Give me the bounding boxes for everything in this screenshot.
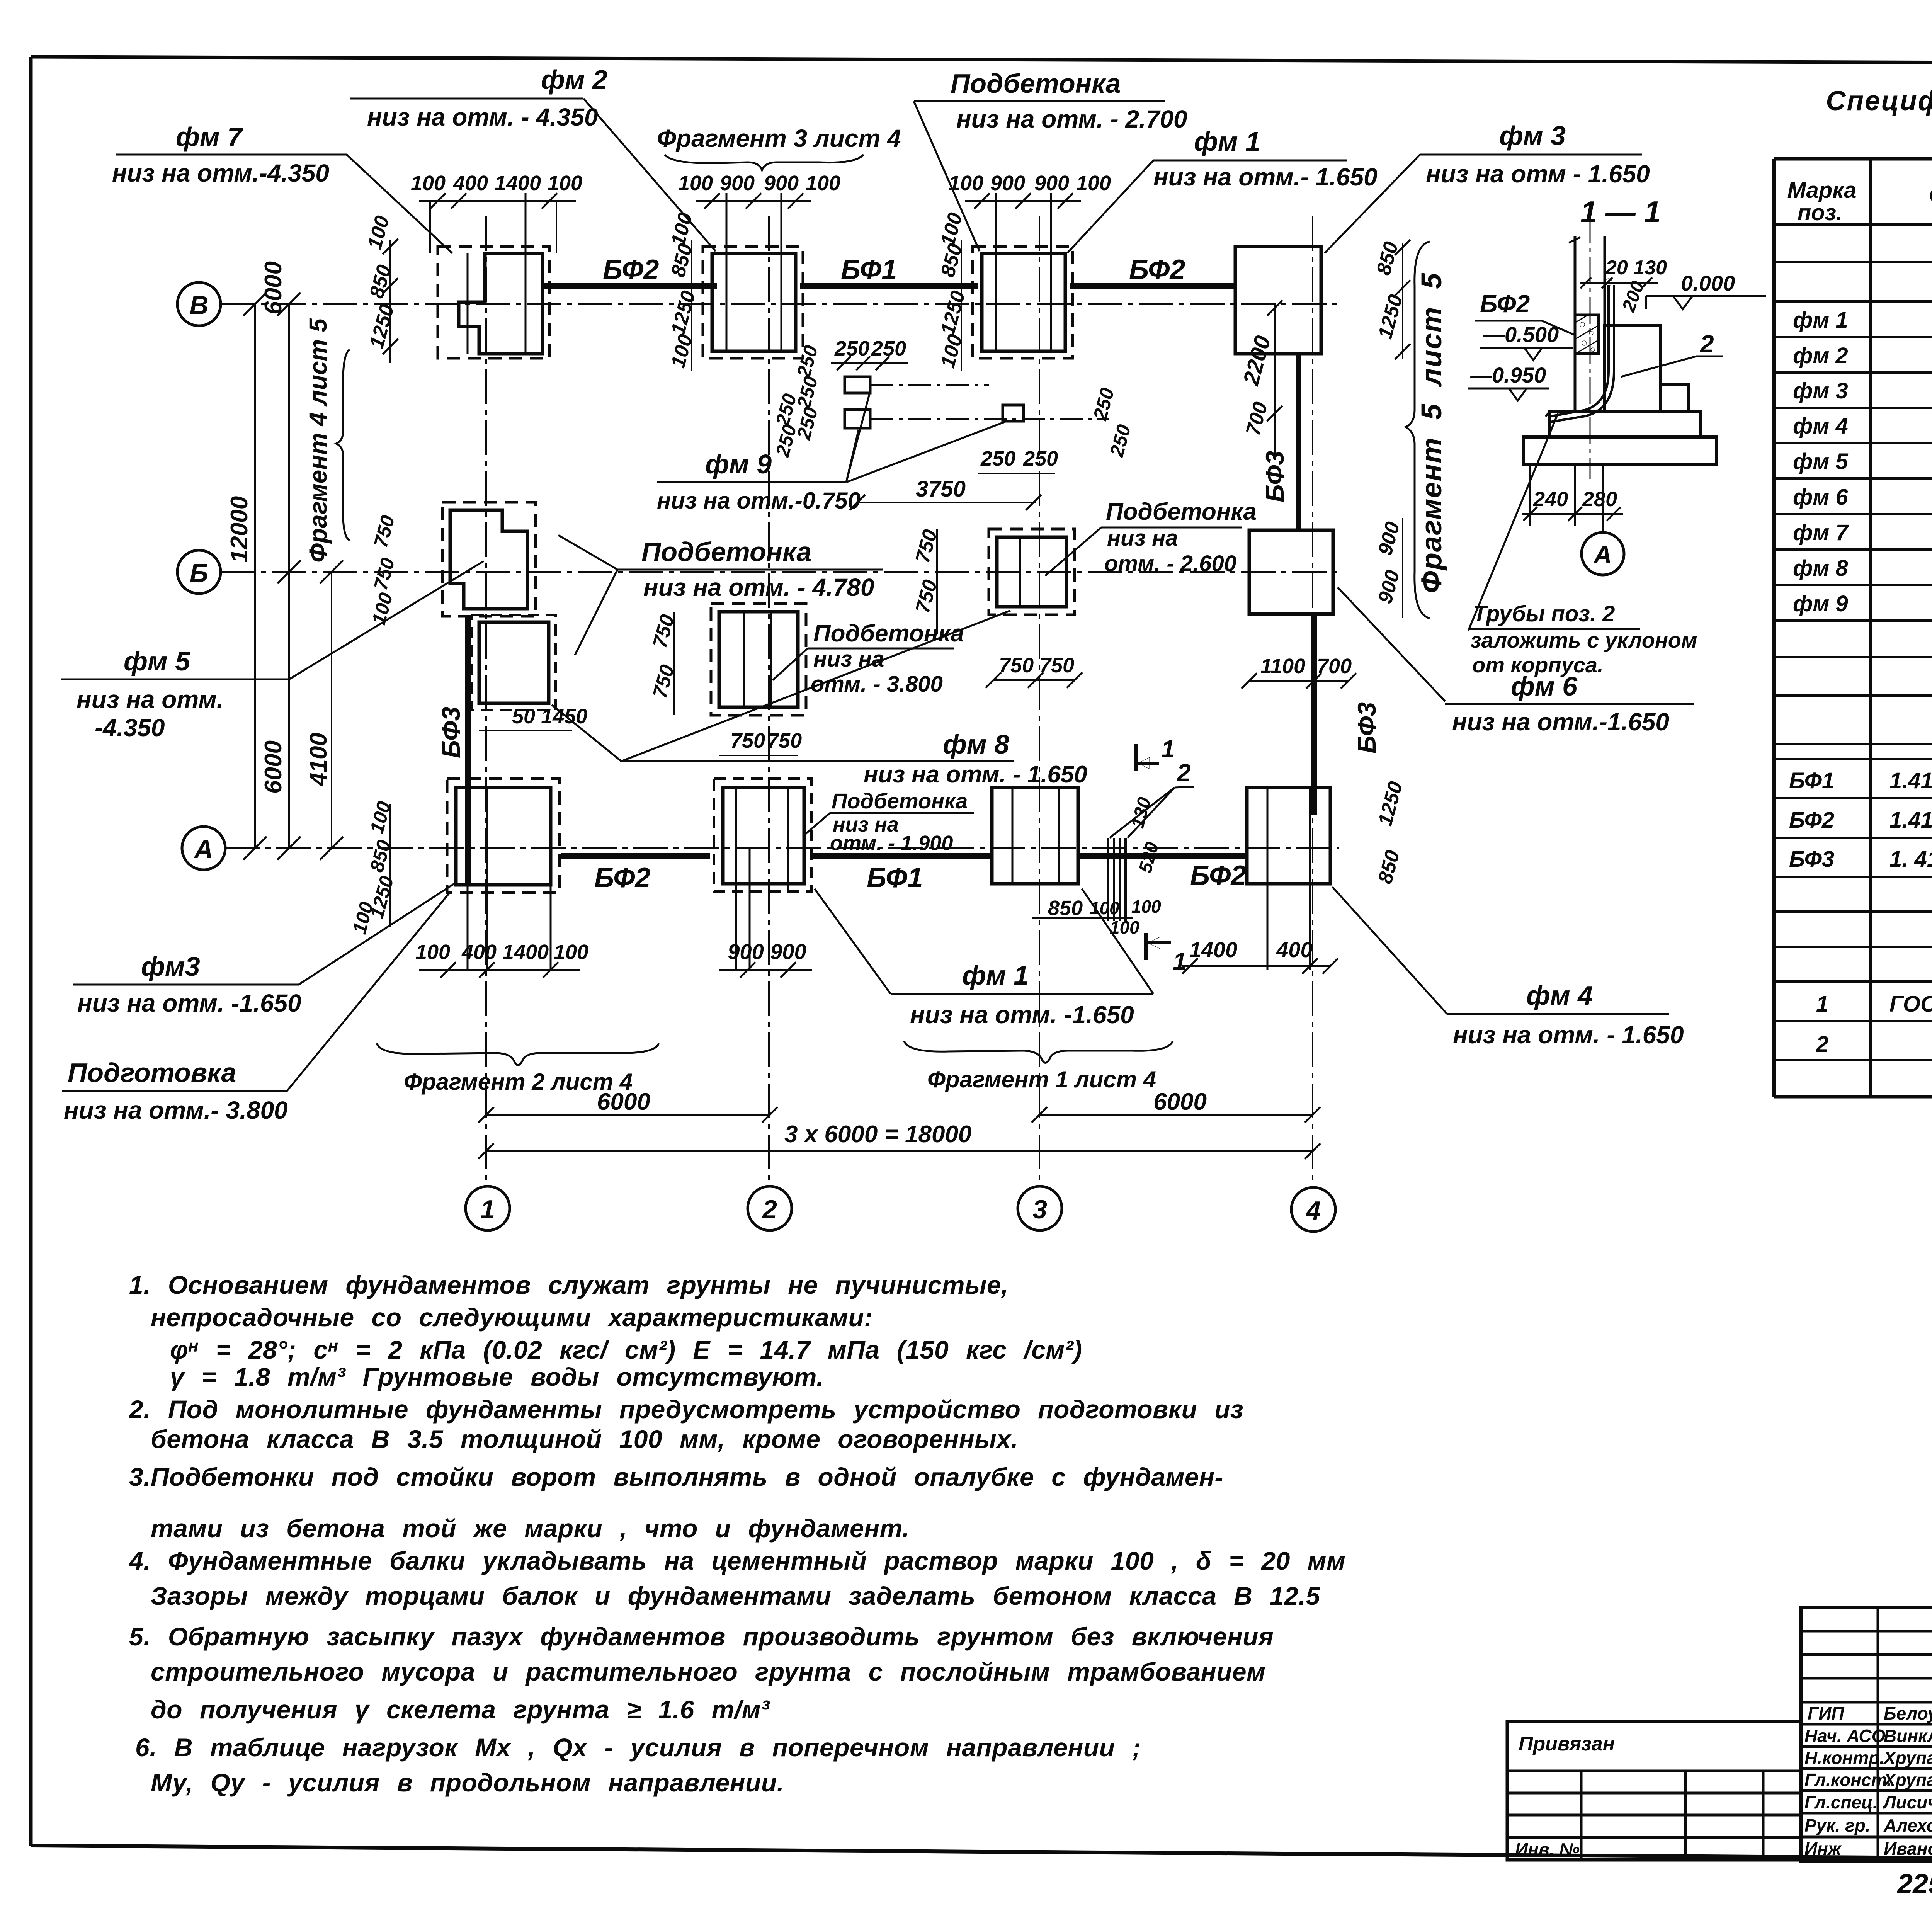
label fm8 bbox=[552, 611, 1087, 788]
svg-text:-4.350: -4.350 bbox=[95, 714, 165, 742]
bottom dim 6000 left bbox=[478, 1089, 777, 1123]
svg-text:6000: 6000 bbox=[260, 261, 287, 315]
section mark 1 upper bbox=[1136, 735, 1175, 771]
svg-text:750: 750 bbox=[999, 654, 1034, 677]
svg-text:Подбетонка: Подбетонка bbox=[1106, 498, 1257, 525]
svg-text:фм 2: фм 2 bbox=[541, 65, 607, 95]
label podbetonka -4.780 bbox=[558, 535, 883, 655]
svg-text:низ на: низ на bbox=[813, 646, 884, 672]
fragment 5 list 5 rotated bbox=[1406, 242, 1447, 618]
svg-text:750: 750 bbox=[1039, 654, 1074, 677]
signature rows bbox=[1804, 1703, 1932, 1859]
svg-text:фм 7: фм 7 bbox=[176, 122, 243, 152]
svg-text:фм 5: фм 5 bbox=[124, 646, 190, 676]
label BF2 with leader bbox=[1475, 290, 1576, 335]
svg-text:фм 5: фм 5 bbox=[1793, 449, 1848, 474]
label podbetonka -1.900 at A2 bbox=[806, 789, 974, 855]
svg-text:850: 850 bbox=[1372, 239, 1403, 277]
dim 20 130 bbox=[1580, 257, 1667, 288]
svg-text:6000: 6000 bbox=[260, 740, 287, 794]
foundation fm3 at A-1 bbox=[447, 779, 560, 970]
svg-text:фм3: фм3 bbox=[141, 951, 200, 981]
svg-text:низ на отм.-1.650: низ на отм.-1.650 bbox=[1452, 708, 1669, 736]
svg-text:1. 415-1: 1. 415-1 bbox=[1889, 847, 1932, 872]
fragment 2 brace and text bbox=[377, 1043, 659, 1095]
svg-text:фм 3: фм 3 bbox=[1499, 121, 1566, 151]
svg-text:Обозначение: Обозначение bbox=[1929, 182, 1932, 208]
svg-text:фм 2: фм 2 bbox=[1793, 343, 1848, 368]
svg-text:Хрупало: Хрупало bbox=[1883, 1748, 1932, 1768]
svg-text:Подготовка: Подготовка bbox=[68, 1058, 236, 1088]
svg-text:низ на отм. -1.650: низ на отм. -1.650 bbox=[910, 1001, 1134, 1029]
svg-text:отм. - 2.600: отм. - 2.600 bbox=[1104, 551, 1236, 576]
svg-text:750: 750 bbox=[767, 729, 802, 752]
svg-text:250: 250 bbox=[1023, 447, 1058, 470]
svg-text:900: 900 bbox=[728, 939, 764, 964]
svg-text:850: 850 bbox=[1048, 896, 1083, 920]
svg-text:Инж: Инж bbox=[1804, 1839, 1842, 1859]
svg-text:БФ1: БФ1 bbox=[1789, 768, 1834, 793]
svg-text:низ на отм. - 2.700: низ на отм. - 2.700 bbox=[956, 105, 1187, 133]
svg-text:поз.: поз. bbox=[1798, 200, 1843, 225]
svg-text:Подбетонка: Подбетонка bbox=[641, 537, 811, 567]
svg-text:Зазоры между торцами балок: Зазоры между торцами балок и фундаментам… bbox=[151, 1582, 1320, 1610]
svg-text:250: 250 bbox=[771, 422, 801, 459]
svg-text:Фрагмент 3 лист 4: Фрагмент 3 лист 4 bbox=[657, 124, 901, 152]
svg-text:2: 2 bbox=[762, 1195, 777, 1224]
svg-text:520: 520 bbox=[1135, 840, 1163, 875]
svg-text:Фрагмент 2 лист 4: Фрагмент 2 лист 4 bbox=[404, 1069, 633, 1095]
svg-text:1400: 1400 bbox=[502, 941, 549, 964]
svg-text:900: 900 bbox=[1034, 172, 1069, 195]
svg-text:100: 100 bbox=[806, 172, 840, 195]
svg-text:БФ2: БФ2 bbox=[1190, 860, 1246, 891]
dim chain above B-2: 100 900 900 100 bbox=[678, 172, 840, 209]
dim 4100 bbox=[305, 560, 343, 860]
privyazan box bbox=[1507, 1721, 1801, 1860]
level -0.500 bbox=[1480, 322, 1573, 360]
dim chain above B-3: 100 900 900 100 bbox=[949, 172, 1111, 209]
svg-text:6. В таблице нагрузок Мх: 6. В таблице нагрузок Мх , Qх - усилия в… bbox=[135, 1733, 1141, 1762]
svg-text:БФ2: БФ2 bbox=[594, 862, 650, 893]
svg-text:5. Обратную засыпку пазух: 5. Обратную засыпку пазух фундаментов пр… bbox=[129, 1622, 1274, 1651]
label fm4 bottom right bbox=[1332, 887, 1684, 1049]
svg-text:Иванов: Иванов bbox=[1884, 1839, 1932, 1859]
svg-text:γ = 1.8 т/м³ Грунтовые вод: γ = 1.8 т/м³ Грунтовые воды отсутствуют. bbox=[170, 1362, 824, 1391]
dims 250 250 near fm8 bbox=[978, 386, 1135, 473]
spec header texts bbox=[1787, 177, 1932, 225]
label fm1 top bbox=[1067, 126, 1378, 253]
svg-text:2: 2 bbox=[1700, 330, 1714, 358]
svg-text:100: 100 bbox=[937, 210, 967, 248]
svg-text:200: 200 bbox=[1618, 278, 1648, 315]
dims 750 750 below Б-2 bbox=[719, 729, 802, 755]
axis B (letter В) bbox=[177, 282, 1339, 326]
svg-text:В: В bbox=[189, 291, 208, 320]
svg-text:100: 100 bbox=[937, 332, 967, 370]
svg-text:1: 1 bbox=[1173, 947, 1187, 975]
svg-text:6000: 6000 bbox=[1153, 1089, 1207, 1115]
svg-text:12000: 12000 bbox=[226, 496, 253, 563]
beam BF2 row A left bbox=[561, 856, 710, 893]
svg-text:БФ2: БФ2 bbox=[603, 254, 659, 285]
svg-text:250: 250 bbox=[1105, 422, 1135, 459]
note pipes poz2 bbox=[1468, 413, 1697, 677]
label fm2 bbox=[350, 65, 716, 251]
bottom dim 6000 right bbox=[1032, 1089, 1320, 1123]
svg-text:700: 700 bbox=[1242, 400, 1272, 438]
svg-text:Подбетонка: Подбетонка bbox=[813, 620, 964, 647]
label podbetonka -2.600 bbox=[1045, 498, 1257, 576]
dim chain below A-1: 100 400 1400 100 bbox=[415, 941, 588, 978]
svg-text:1: 1 bbox=[1816, 992, 1828, 1017]
bolt dims 850 100 100 near A-3 bbox=[1032, 795, 1163, 937]
label fm7 bbox=[112, 122, 452, 253]
foundation fm2 at B-2 bbox=[703, 193, 803, 358]
svg-text:БФ3: БФ3 bbox=[437, 707, 465, 758]
svg-text:850: 850 bbox=[1374, 848, 1404, 886]
svg-text:отм. - 1.900: отм. - 1.900 bbox=[830, 832, 953, 855]
column walls bbox=[1569, 236, 1605, 356]
svg-text:4100: 4100 bbox=[305, 733, 332, 787]
svg-text:100: 100 bbox=[364, 213, 394, 252]
label fm3 top right bbox=[1325, 121, 1650, 253]
dims 1100 700 below Б-4 bbox=[1242, 655, 1356, 689]
svg-text:100: 100 bbox=[411, 172, 446, 195]
svg-text:низ на отм.- 3.800: низ на отм.- 3.800 bbox=[64, 1096, 288, 1124]
dim chain below A-4: 1400 400 bbox=[1182, 937, 1338, 974]
label fm5 bbox=[61, 561, 484, 742]
svg-text:900: 900 bbox=[1374, 568, 1404, 606]
dim 240 280 bbox=[1522, 465, 1623, 526]
svg-text:Алехова: Алехова bbox=[1883, 1815, 1932, 1835]
svg-text:1. Основанием фундаментов: 1. Основанием фундаментов служат грунты … bbox=[129, 1271, 1009, 1299]
rotated dims 850 1250 right of B-4 bbox=[1372, 239, 1410, 359]
svg-text:100: 100 bbox=[678, 172, 713, 195]
svg-text:отм. - 3.800: отм. - 3.800 bbox=[811, 672, 943, 697]
svg-text:Подбетонка: Подбетонка bbox=[951, 68, 1121, 99]
svg-text:низ на отм. - 4.780: низ на отм. - 4.780 bbox=[643, 573, 874, 601]
dim 2200 vertical right of B-3 bbox=[1238, 300, 1282, 460]
svg-text:2. Под монолитные фундамент: 2. Под монолитные фундаменты предусмотре… bbox=[128, 1395, 1243, 1424]
svg-text:4. Фундаментные балки укла: 4. Фундаментные балки укладывать на цеме… bbox=[128, 1546, 1345, 1575]
svg-text:Б: Б bbox=[190, 558, 208, 588]
svg-text:250: 250 bbox=[980, 447, 1015, 470]
level mark 0.000 bbox=[1618, 271, 1766, 315]
svg-text:1.415-1: 1.415-1 bbox=[1889, 768, 1932, 793]
svg-text:Лисичкин: Лисичкин bbox=[1883, 1792, 1932, 1812]
svg-text:Му, Qу - усилия в продоль: Му, Qу - усилия в продольном направлении… bbox=[151, 1768, 784, 1797]
spec table grid bbox=[1774, 159, 1932, 1097]
svg-text:100: 100 bbox=[554, 941, 588, 964]
left dim chain 6000/6000 bbox=[260, 261, 301, 860]
dim chain above B-1: 100 400 1400 100 bbox=[411, 172, 582, 253]
svg-text:900: 900 bbox=[720, 172, 755, 195]
svg-text:400: 400 bbox=[461, 941, 497, 964]
foundation podbetonka at Б-2 bbox=[711, 604, 806, 715]
svg-text:строительного мусора и рас: строительного мусора и растительного гру… bbox=[151, 1657, 1265, 1686]
svg-text:непросадочные со следующи: непросадочные со следующими характеристи… bbox=[151, 1303, 873, 1332]
svg-text:низ на отм.-0.750: низ на отм.-0.750 bbox=[657, 488, 861, 514]
svg-text:1: 1 bbox=[1161, 735, 1175, 763]
svg-text:900: 900 bbox=[1374, 519, 1404, 558]
svg-text:100: 100 bbox=[548, 172, 582, 195]
svg-text:700: 700 bbox=[1317, 655, 1352, 678]
dashed podbetonka around A2 bbox=[714, 779, 811, 891]
label fm9 bbox=[657, 394, 1005, 514]
svg-text:1250: 1250 bbox=[667, 288, 700, 337]
label podbetonka -3.800 bbox=[773, 620, 964, 697]
svg-text:1.415-1: 1.415-1 bbox=[1889, 808, 1932, 833]
label podgotovka bbox=[62, 893, 449, 1124]
svg-text:фм 7: фм 7 bbox=[1793, 520, 1849, 545]
svg-text:БФ3: БФ3 bbox=[1352, 702, 1381, 754]
column axis 2 bbox=[748, 216, 792, 1230]
svg-text:100: 100 bbox=[368, 590, 397, 627]
svg-text:Белоус: Белоус bbox=[1884, 1703, 1932, 1723]
svg-text:22529- 03: 22529- 03 bbox=[1896, 1869, 1932, 1900]
svg-text:БФ2: БФ2 bbox=[1480, 290, 1530, 318]
anchor bolts cluster near A-3 bbox=[1108, 838, 1126, 921]
rotated dim 1250 right of A-4 bbox=[1374, 779, 1407, 886]
svg-text:БФ2: БФ2 bbox=[1789, 808, 1834, 833]
svg-text:фм 8: фм 8 bbox=[1793, 556, 1848, 581]
svg-text:Инв. №: Инв. № bbox=[1515, 1839, 1580, 1859]
svg-text:фм 1: фм 1 bbox=[962, 960, 1029, 990]
svg-text:100: 100 bbox=[415, 941, 450, 964]
svg-text:до получения γ скелета гр: до получения γ скелета грунта ≥ 1.6 т/м³ bbox=[151, 1695, 770, 1724]
svg-text:750: 750 bbox=[370, 556, 399, 592]
svg-text:фм 1: фм 1 bbox=[1194, 126, 1260, 156]
svg-text:Хрупало: Хрупало bbox=[1883, 1770, 1932, 1790]
dim chain below A-2: 900 900 bbox=[719, 939, 812, 978]
svg-text:низ на отм. - 1.650: низ на отм. - 1.650 bbox=[864, 761, 1087, 788]
svg-text:фм 3: фм 3 bbox=[1793, 378, 1848, 403]
svg-text:100: 100 bbox=[1110, 917, 1139, 937]
foundation fm1 at B-3 bbox=[973, 193, 1073, 358]
svg-text:низ на: низ на bbox=[1107, 526, 1178, 551]
svg-text:фм 6: фм 6 bbox=[1793, 485, 1848, 510]
section mark 1 lower bbox=[1146, 933, 1187, 975]
svg-text:100: 100 bbox=[349, 900, 378, 936]
svg-text:900: 900 bbox=[770, 939, 806, 964]
svg-text:Фрагмент 4 лист 5: Фрагмент 4 лист 5 bbox=[304, 318, 332, 563]
svg-text:3: 3 bbox=[1032, 1195, 1047, 1224]
small fm8 square mid bbox=[1003, 405, 1024, 421]
svg-text:тами из бетона той же мар: тами из бетона той же марки , что и фунд… bbox=[151, 1514, 910, 1543]
dims 750 750 left of Б-3 bbox=[912, 527, 942, 634]
rotated dims left of B-1: 100 850 1250 bbox=[364, 213, 399, 363]
beam BF2 row B right bbox=[1070, 254, 1235, 286]
label fm3 bottom left bbox=[73, 882, 457, 1017]
pipe poz 2 bbox=[1549, 279, 1614, 422]
svg-text:1400: 1400 bbox=[495, 172, 541, 195]
svg-text:280: 280 bbox=[1582, 488, 1617, 511]
foundation fm4 at A-4 bbox=[1247, 788, 1330, 970]
svg-text:Трубы поз. 2: Трубы поз. 2 bbox=[1473, 601, 1615, 626]
svg-text:250: 250 bbox=[834, 337, 869, 360]
svg-text:А: А bbox=[1593, 540, 1612, 569]
label fragment 3 bbox=[657, 124, 901, 170]
svg-text:низ на отм. - 1.650: низ на отм. - 1.650 bbox=[1453, 1021, 1684, 1049]
svg-text:250: 250 bbox=[1089, 386, 1118, 423]
svg-text:Гл.спец.: Гл.спец. bbox=[1804, 1792, 1878, 1812]
svg-text:3750: 3750 bbox=[916, 476, 966, 502]
svg-text:100: 100 bbox=[667, 210, 697, 248]
svg-text:400: 400 bbox=[1276, 937, 1312, 962]
svg-text:Подбетонка: Подбетонка bbox=[832, 789, 968, 813]
svg-text:Нач. АСО: Нач. АСО bbox=[1804, 1726, 1886, 1746]
svg-text:заложить с уклоном: заложить с уклоном bbox=[1470, 628, 1697, 652]
BF2 beam section hatched bbox=[1575, 315, 1599, 354]
svg-text:фм 8: фм 8 bbox=[943, 729, 1009, 759]
svg-text:240: 240 bbox=[1533, 488, 1568, 511]
foundation fm1 at A-2 bbox=[723, 788, 804, 970]
beam BF3 vertical Б4-А4 bbox=[1314, 614, 1381, 815]
svg-text:100: 100 bbox=[667, 332, 697, 370]
pos 2 leader bbox=[1621, 330, 1723, 377]
foundation fm5 at Б-1 bbox=[442, 502, 556, 710]
dim 50 1450 bbox=[479, 705, 587, 730]
pos label 2 with leader bbox=[1110, 759, 1194, 838]
svg-text:4: 4 bbox=[1305, 1196, 1321, 1225]
dim 3750 bbox=[850, 476, 1041, 510]
axis circle A below detail bbox=[1582, 465, 1624, 575]
foundation fm1 at A-3 bbox=[992, 788, 1078, 884]
svg-text:Н.контр.: Н.контр. bbox=[1804, 1748, 1884, 1768]
svg-text:20 130: 20 130 bbox=[1605, 257, 1667, 279]
beam BF1 row B bbox=[800, 254, 978, 286]
svg-text:850: 850 bbox=[366, 262, 396, 301]
foundation steps section bbox=[1524, 326, 1716, 465]
svg-text:400: 400 bbox=[453, 172, 488, 195]
axis Б bbox=[177, 550, 1339, 594]
fragment 4 list 5 rotated label bbox=[304, 318, 350, 563]
svg-text:Спецификация к схеме располо: Спецификация к схеме расположения фундам… bbox=[1826, 86, 1932, 116]
svg-text:1 — 1: 1 — 1 bbox=[1580, 195, 1661, 229]
svg-text:низ на отм - 1.650: низ на отм - 1.650 bbox=[1426, 160, 1650, 188]
svg-text:2: 2 bbox=[1816, 1032, 1828, 1057]
svg-text:низ на отм.-4.350: низ на отм.-4.350 bbox=[112, 159, 329, 187]
column centerline bbox=[1590, 216, 1591, 479]
axis A (letter А) bbox=[182, 827, 1339, 870]
svg-text:750: 750 bbox=[730, 729, 765, 752]
svg-text:3 х 6000 = 18000: 3 х 6000 = 18000 bbox=[784, 1121, 971, 1148]
beam BF3 vertical B4-Б4 bbox=[1260, 354, 1298, 530]
rotated dims near Б1 bbox=[368, 513, 399, 627]
svg-text:—0.500: —0.500 bbox=[1483, 322, 1559, 347]
dims 750 750 left of Б-2 bbox=[649, 612, 679, 715]
svg-text:низ на отм. -1.650: низ на отм. -1.650 bbox=[77, 989, 301, 1017]
svg-text:ГОСТ 24379.1 - 80: ГОСТ 24379.1 - 80 bbox=[1889, 992, 1932, 1017]
svg-text:низ на отм.- 1.650: низ на отм.- 1.650 bbox=[1153, 163, 1378, 191]
svg-text:БФ1: БФ1 bbox=[867, 862, 923, 893]
rotated dims 900 900 right of Б-4 bbox=[1374, 518, 1404, 618]
foundation fm7 at B-1 bbox=[438, 193, 549, 358]
svg-text:ГИП: ГИП bbox=[1808, 1703, 1844, 1723]
svg-text:900: 900 bbox=[764, 172, 799, 195]
svg-text:1: 1 bbox=[480, 1195, 495, 1224]
svg-text:фм 4: фм 4 bbox=[1793, 413, 1848, 439]
small fm9 squares bbox=[845, 377, 1109, 428]
rotated dims left of B-2: 850 100 / 1250 100 bbox=[667, 210, 700, 371]
svg-text:2: 2 bbox=[1177, 759, 1191, 787]
svg-text:—0.950: —0.950 bbox=[1470, 363, 1546, 387]
svg-text:0.000: 0.000 bbox=[1681, 271, 1735, 295]
beam BF3 vertical Б1-А1 bbox=[437, 616, 468, 885]
main stamp box bbox=[1801, 1607, 1932, 1861]
label fm1 bottom bbox=[815, 889, 1153, 1029]
svg-text:низ на отм.: низ на отм. bbox=[77, 685, 224, 713]
svg-text:100: 100 bbox=[1131, 896, 1161, 917]
svg-text:Рук. гр.: Рук. гр. bbox=[1804, 1815, 1871, 1835]
foundation fm3 at B-4 bbox=[1235, 247, 1321, 354]
svg-text:100: 100 bbox=[1076, 172, 1111, 195]
column axis 4 bbox=[1291, 216, 1335, 1232]
foundation fm6 at Б-4 bbox=[1249, 530, 1333, 614]
svg-text:низ на отм. - 4.350: низ на отм. - 4.350 bbox=[367, 103, 598, 131]
label podbetonka top bbox=[914, 68, 1187, 251]
svg-text:фм 6: фм 6 bbox=[1511, 671, 1578, 701]
svg-text:БФ3: БФ3 bbox=[1789, 847, 1834, 872]
column axis 3 bbox=[1018, 216, 1062, 1230]
dims 750 750 below Б-3 bbox=[986, 654, 1082, 688]
svg-text:Привязан: Привязан bbox=[1519, 1733, 1615, 1755]
spec rows bbox=[1789, 272, 1932, 1094]
level -0.950 bbox=[1468, 363, 1549, 401]
beam BF2 row A right bbox=[1079, 856, 1247, 891]
svg-text:2200: 2200 bbox=[1238, 333, 1276, 388]
svg-text:А: А bbox=[193, 835, 213, 864]
left dim chain 12000 bbox=[226, 293, 267, 860]
svg-text:900: 900 bbox=[990, 172, 1025, 195]
svg-text:фм 1: фм 1 bbox=[1793, 308, 1848, 333]
foundation at Б-3 bbox=[989, 529, 1075, 615]
label fm6 bbox=[1338, 587, 1694, 736]
beam BF2 row B left bbox=[543, 254, 717, 286]
svg-text:БФ1: БФ1 bbox=[841, 254, 897, 285]
svg-text:1400: 1400 bbox=[1189, 937, 1238, 962]
svg-text:Фрагмент 5 лист 5: Фрагмент 5 лист 5 bbox=[1415, 272, 1447, 593]
svg-text:бетона класса В 3.5 толщин: бетона класса В 3.5 толщиной 100 мм, кро… bbox=[151, 1425, 1018, 1453]
svg-text:750: 750 bbox=[370, 513, 399, 550]
svg-text:1250: 1250 bbox=[937, 288, 970, 337]
svg-text:φн = 28°; сн = 2 кПа (0.0: φн = 28°; сн = 2 кПа (0.02 кгс/ см²) Е =… bbox=[170, 1335, 1082, 1364]
svg-text:1100: 1100 bbox=[1260, 655, 1305, 678]
column axis 1 bbox=[466, 216, 510, 1230]
dims 250 250 near fm9 bbox=[771, 337, 908, 459]
rotated dims left of B-3: 850 100 / 1250 100 bbox=[937, 210, 970, 371]
svg-text:Винклер: Винклер bbox=[1884, 1726, 1932, 1746]
fragment 1 brace and text bbox=[904, 1041, 1173, 1092]
svg-text:Гл.конст.: Гл.конст. bbox=[1804, 1770, 1892, 1790]
svg-text:фм 9: фм 9 bbox=[705, 449, 772, 479]
svg-text:1250: 1250 bbox=[1374, 779, 1407, 828]
svg-text:Марка: Марка bbox=[1787, 178, 1856, 203]
svg-text:фм 9: фм 9 bbox=[1793, 591, 1848, 616]
bottom dim 3x6000=18000 bbox=[478, 1121, 1320, 1159]
beam BF1 row A bbox=[812, 856, 993, 893]
svg-text:3.Подбетонки под стойки вор: 3.Подбетонки под стойки ворот выполнять … bbox=[129, 1463, 1223, 1491]
svg-text:Фрагмент 1 лист 4: Фрагмент 1 лист 4 bbox=[927, 1067, 1156, 1092]
svg-text:БФ2: БФ2 bbox=[1129, 254, 1185, 285]
svg-text:фм 4: фм 4 bbox=[1526, 980, 1593, 1010]
